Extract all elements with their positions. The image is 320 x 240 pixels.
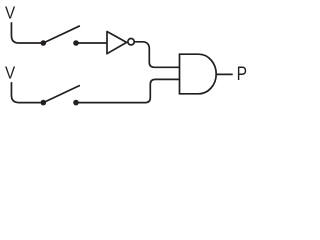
switch S1 blade — [43, 26, 80, 43]
switch S2 throw dot — [73, 100, 79, 106]
label V (top supply) — [5, 3, 15, 23]
wire from inverter output to AND top input — [134, 42, 179, 68]
svg-text:V: V — [5, 63, 15, 83]
inverter U1 triangle — [107, 32, 127, 54]
wire from switch S1 to inverter input — [76, 42, 107, 44]
wire AND output — [216, 73, 233, 75]
label P (output) — [237, 62, 247, 84]
svg-text:V: V — [5, 3, 15, 23]
label V (bottom supply) — [5, 63, 15, 83]
switch S1 throw dot — [73, 40, 79, 46]
AND gate U2 body — [180, 54, 217, 94]
switch S1 pole dot — [41, 40, 47, 46]
svg-text:P: P — [237, 62, 247, 84]
switch S2 pole dot — [41, 100, 47, 106]
wire from bottom V to switch S2 — [11, 82, 40, 103]
inverter U1 bubble — [128, 39, 134, 45]
switch S2 blade — [43, 85, 80, 102]
wire from switch S2 to AND bottom input — [76, 79, 180, 102]
wire from top V to switch S1 — [11, 22, 40, 43]
